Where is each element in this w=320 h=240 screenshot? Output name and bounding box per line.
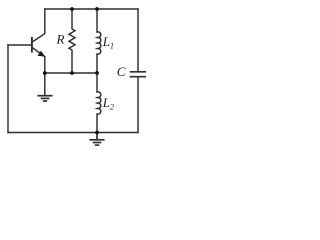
svg-text:C: C <box>117 64 126 79</box>
inductor L1 <box>97 9 101 73</box>
svg-text:L1: L1 <box>102 34 114 51</box>
wire left edge <box>7 45 9 133</box>
transistor Q1 base bar <box>31 38 33 52</box>
resistor R <box>69 9 75 73</box>
inductor L2 <box>97 73 101 133</box>
ground (bottom) <box>90 133 104 146</box>
node bottom of L2 <box>95 131 99 135</box>
node emitter junction <box>43 71 47 75</box>
wire right edge upper (to capacitor) <box>137 9 139 72</box>
capacitor C <box>131 72 146 77</box>
transistor Q1 emitter arrow <box>38 51 46 57</box>
wire top rail <box>45 8 138 10</box>
node bottom of R <box>70 71 74 75</box>
svg-text:L2: L2 <box>102 95 114 112</box>
transistor Q1 emitter lead <box>32 47 45 95</box>
transistor Q1 collector lead <box>32 9 45 42</box>
node top of R <box>70 7 74 11</box>
node L1-L2 tap <box>95 71 99 75</box>
svg-text:R: R <box>56 31 65 46</box>
ground (emitter) <box>38 96 52 101</box>
wire base lead <box>8 44 32 46</box>
wire bottom rail <box>8 132 138 134</box>
wire right edge lower <box>137 77 139 133</box>
node top of L1 <box>95 7 99 11</box>
wire middle junction line <box>45 72 97 74</box>
